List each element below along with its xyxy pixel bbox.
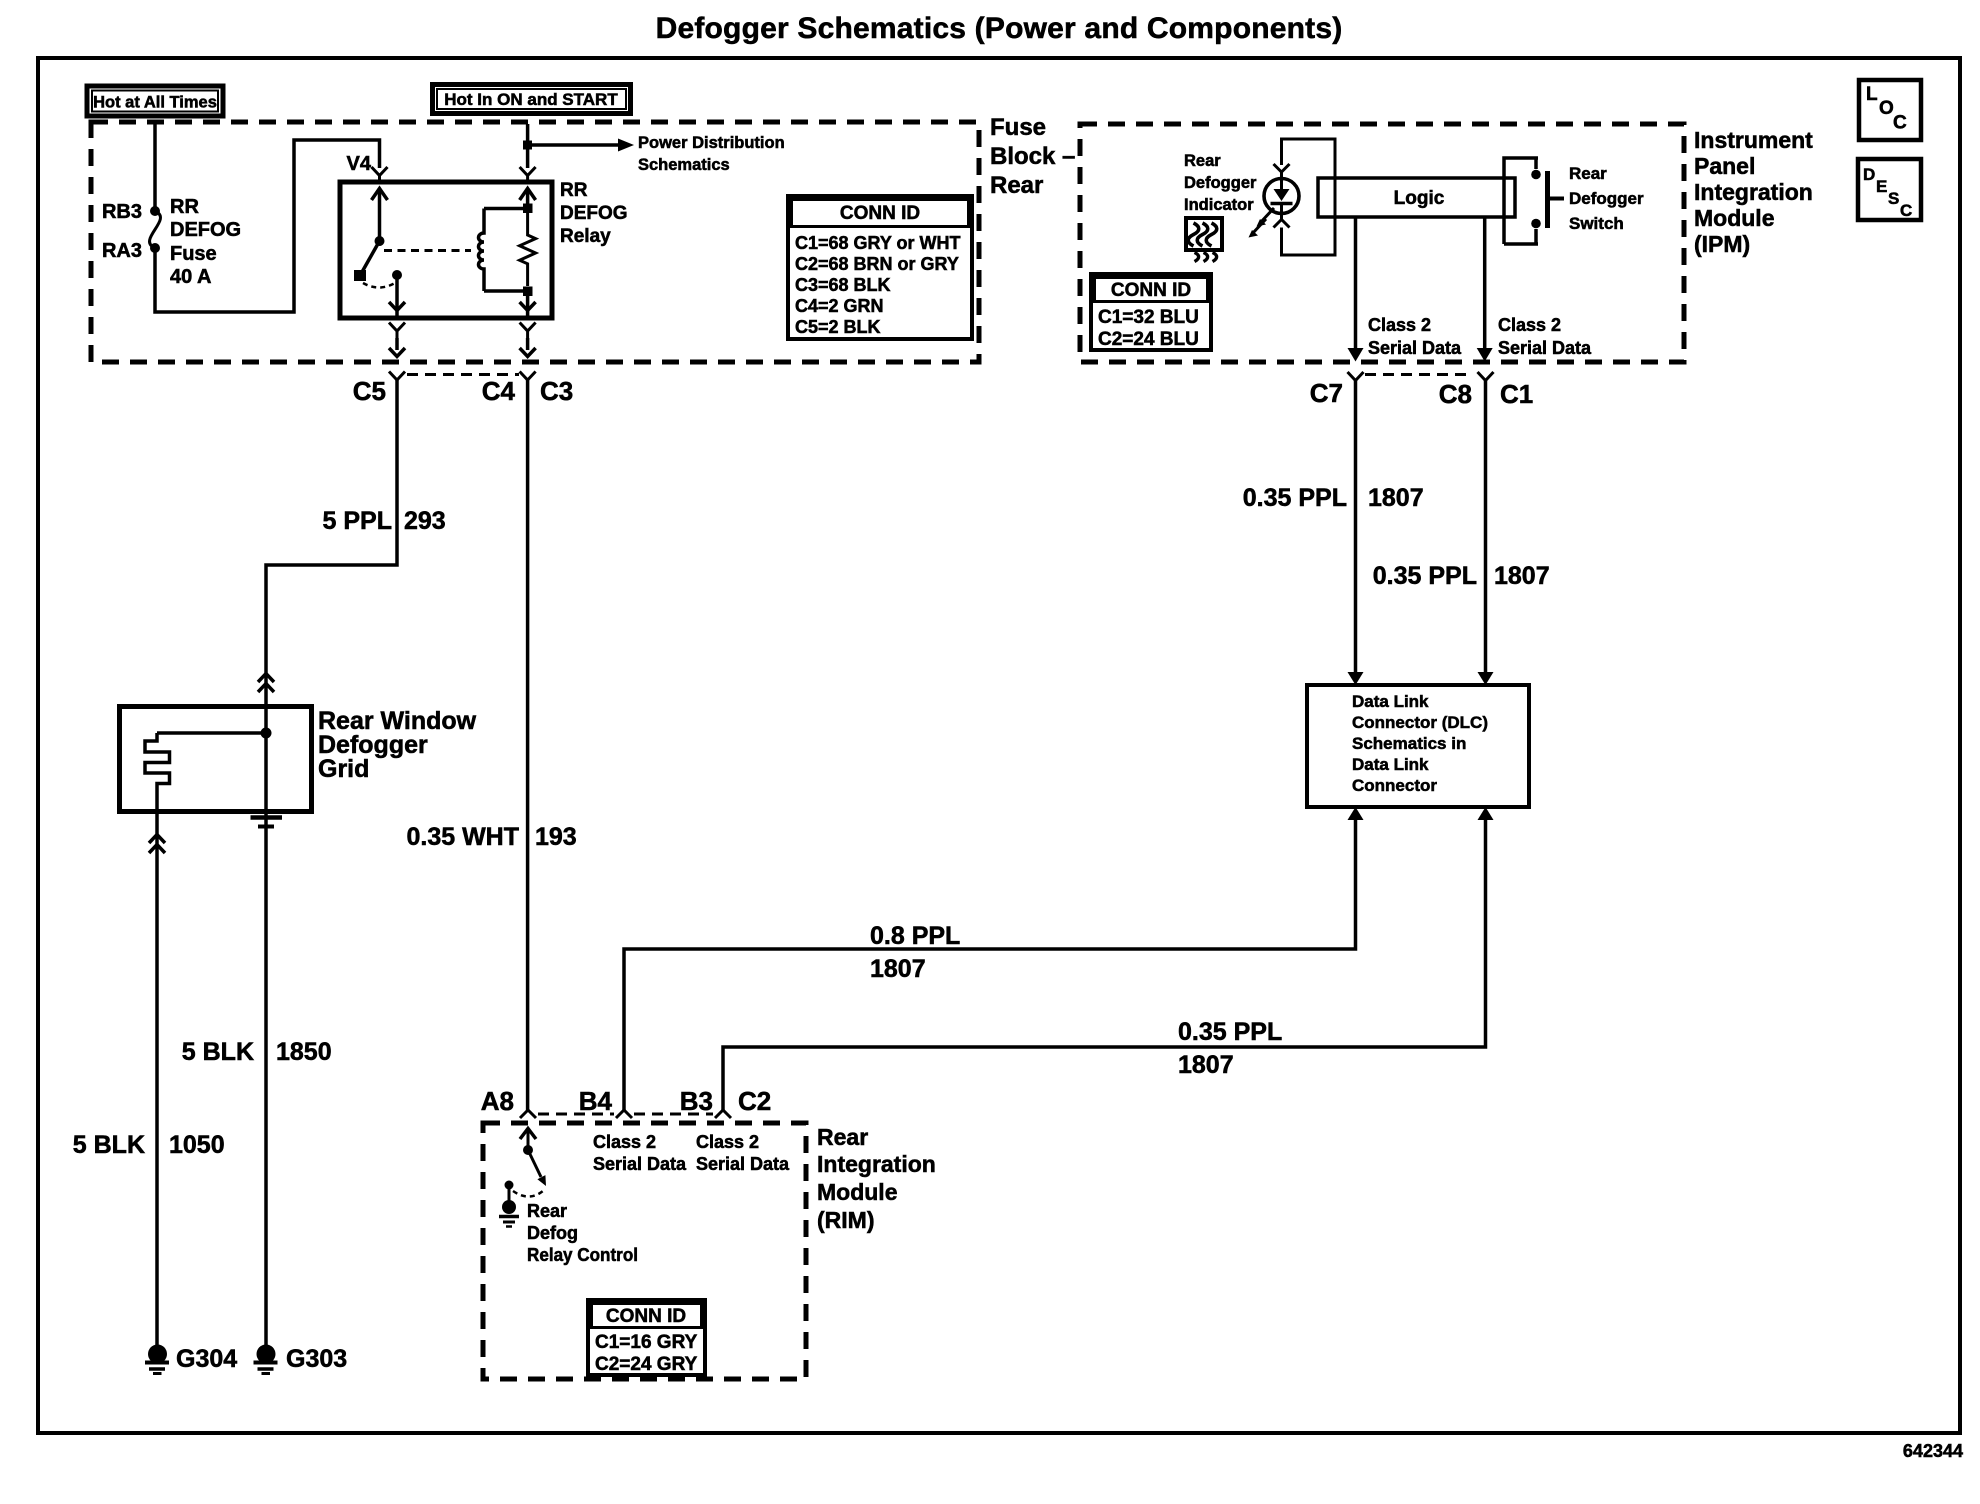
node: coil top junction — [523, 204, 533, 214]
node: grid feed junction — [261, 728, 272, 739]
svg-text:C1=16 GRY: C1=16 GRY — [595, 1332, 698, 1353]
svg-text:Class 2: Class 2 — [696, 1132, 759, 1152]
svg-text:Serial Data: Serial Data — [696, 1154, 790, 1174]
fuse block - rear dashed box — [91, 122, 979, 362]
wire: LED anode loop to logic — [1282, 139, 1336, 255]
connector B3 — [680, 1086, 731, 1118]
svg-text:Hot at All Times: Hot at All Times — [93, 94, 217, 112]
connector: relay coil pin — [520, 167, 536, 182]
svg-text:C8: C8 — [1439, 379, 1472, 409]
wire: fuse RA3 to relay V4 input — [155, 140, 380, 312]
wire 5 BLK 1050: grid element to G304 — [155, 810, 159, 1347]
svg-text:0.35 WHT: 0.35 WHT — [406, 823, 519, 851]
svg-text:(RIM): (RIM) — [817, 1207, 874, 1233]
svg-text:0.35 PPL: 0.35 PPL — [1373, 562, 1477, 590]
LOC icon box — [1859, 80, 1921, 140]
svg-text:Schematics: Schematics — [638, 156, 730, 174]
svg-text:Connector (DLC): Connector (DLC) — [1352, 713, 1488, 732]
svg-text:(IPM): (IPM) — [1694, 231, 1750, 257]
svg-text:B4: B4 — [579, 1086, 613, 1116]
relay switch — [354, 188, 402, 288]
connector B4 — [579, 1086, 632, 1118]
svg-text:0.35 PPL: 0.35 PPL — [1178, 1018, 1282, 1046]
svg-text:DEFOG: DEFOG — [170, 219, 241, 241]
wire: class 2 serial data from logic (C7) — [1348, 217, 1463, 362]
svg-text:Rear: Rear — [1569, 164, 1607, 183]
label: Rear Defog Relay Control — [527, 1201, 638, 1265]
grid element (heater meander) — [145, 733, 170, 812]
relay coil input arrow — [520, 189, 536, 201]
svg-text:L: L — [1866, 84, 1878, 105]
ground G304 — [145, 1345, 237, 1374]
wire 5 BLK 1850: grid to G303 — [264, 733, 268, 1347]
connector C5 — [353, 323, 405, 407]
wire: LED cathode loop to logic — [1282, 217, 1336, 255]
svg-text:Serial Data: Serial Data — [1498, 338, 1592, 358]
svg-text:Fuse: Fuse — [170, 243, 217, 265]
svg-text:C5: C5 — [353, 376, 386, 406]
svg-text:O: O — [1879, 98, 1894, 119]
svg-text:5 BLK: 5 BLK — [73, 1131, 145, 1159]
fuse RR DEFOG 40 A — [102, 196, 241, 288]
svg-text:Defogger: Defogger — [1184, 174, 1257, 192]
relay actuation dashed link — [384, 249, 471, 252]
relay switch input arrow — [372, 189, 388, 201]
label 5 BLK 1850 — [182, 1038, 332, 1066]
ground: grid case ground — [251, 818, 283, 827]
svg-text:CONN ID: CONN ID — [1111, 280, 1191, 301]
svg-text:Integration: Integration — [817, 1151, 936, 1177]
inline connector on 5 BLK 1050 — [149, 835, 165, 854]
svg-text:Rear: Rear — [990, 172, 1043, 199]
svg-text:C4=2 GRN: C4=2 GRN — [795, 296, 884, 316]
svg-text:CONN ID: CONN ID — [606, 1306, 686, 1327]
connector pin below LED — [1274, 214, 1290, 228]
relay resistor — [520, 213, 536, 286]
svg-text:C2: C2 — [738, 1086, 771, 1116]
connector C4 — [482, 323, 536, 407]
wire: relay coil output to box bottom — [520, 296, 536, 317]
svg-text:1807: 1807 — [1368, 484, 1424, 512]
connector C8 — [1439, 372, 1494, 409]
wire 0.35 WHT 193: relay C3 to RIM A8 — [526, 380, 530, 1110]
svg-text:Indicator: Indicator — [1184, 196, 1254, 214]
connector C7 — [1310, 372, 1364, 408]
label: class 2 serial data (B3) — [696, 1132, 790, 1174]
svg-text:Rear: Rear — [817, 1124, 868, 1150]
logic block U1 — [1318, 178, 1515, 217]
DESC icon box — [1858, 159, 1921, 220]
wire 0.35 PPL 1807: C7 to DLC — [1243, 381, 1424, 686]
svg-text:Relay: Relay — [560, 226, 611, 247]
svg-text:E: E — [1876, 177, 1887, 196]
svg-text:CONN ID: CONN ID — [840, 203, 920, 224]
label: Instrument Panel Integration Module (IPM) — [1694, 127, 1813, 257]
connector V4 — [347, 153, 388, 182]
svg-text:Data Link: Data Link — [1352, 692, 1429, 711]
svg-text:1807: 1807 — [1178, 1051, 1234, 1079]
svg-text:C1: C1 — [1500, 379, 1533, 409]
svg-text:Integration: Integration — [1694, 179, 1813, 205]
svg-text:Relay Control: Relay Control — [527, 1245, 638, 1265]
label 5 BLK 1050 — [73, 1131, 225, 1159]
svg-text:1050: 1050 — [169, 1131, 225, 1159]
label: Fuse Block - Rear — [990, 114, 1075, 199]
inline connector dashed link A8-B4-B3 — [538, 1113, 713, 1116]
RIM dashed box — [483, 1123, 806, 1379]
svg-text:Fuse: Fuse — [990, 114, 1046, 141]
wire: class 2 serial data from logic (C8) — [1477, 217, 1592, 362]
svg-text:RA3: RA3 — [102, 240, 142, 262]
svg-text:C4: C4 — [482, 376, 516, 406]
wire: coil top link — [484, 207, 527, 211]
svg-text:Switch: Switch — [1569, 214, 1624, 233]
svg-text:C1=68 GRY or WHT: C1=68 GRY or WHT — [795, 233, 961, 253]
svg-text:G303: G303 — [286, 1345, 347, 1373]
svg-text:C: C — [1900, 201, 1912, 220]
rear window defogger grid — [120, 707, 477, 812]
connector pin above LED — [1274, 164, 1290, 179]
connector id table (RIM) — [588, 1300, 705, 1375]
svg-text:C3=68 BLK: C3=68 BLK — [795, 275, 891, 295]
svg-text:Rear: Rear — [1184, 152, 1221, 170]
label: class 2 serial data (B4) — [593, 1132, 687, 1174]
svg-text:A8: A8 — [481, 1086, 514, 1116]
svg-text:1807: 1807 — [1494, 562, 1550, 590]
ground G303 — [254, 1345, 348, 1374]
node: coil bottom junction — [523, 287, 533, 297]
label: Rear Integration Module (RIM) — [817, 1124, 936, 1233]
svg-text:Schematics in: Schematics in — [1352, 734, 1466, 753]
svg-text:Module: Module — [1694, 205, 1775, 231]
wire: ignition feed from Hot In ON and START — [526, 124, 530, 141]
svg-text:C2=24 BLU: C2=24 BLU — [1098, 329, 1199, 350]
svg-text:Power Distribution: Power Distribution — [638, 134, 785, 152]
label box: Hot at All Times — [87, 86, 223, 116]
wire 0.35 PPL 1807: C8 to DLC — [1373, 381, 1550, 686]
inline connector dashed link C7-C8 — [1365, 373, 1473, 376]
svg-text:C7: C7 — [1310, 378, 1343, 408]
wire: junction down to relay coil input — [526, 149, 530, 168]
svg-text:1850: 1850 — [276, 1038, 332, 1066]
wire arrow to Power Distribution Schematics — [532, 134, 785, 174]
svg-text:642344: 642344 — [1903, 1441, 1963, 1461]
label: Rear Defogger Indicator — [1184, 152, 1257, 214]
wire: battery feed into fuse RB3 — [153, 124, 157, 207]
connector id table (IPM) — [1091, 274, 1211, 350]
label 5 PPL 293 — [323, 507, 446, 535]
label box: Hot In ON and START — [433, 85, 631, 114]
label 0.35 WHT 193 — [406, 823, 576, 851]
svg-text:Logic: Logic — [1394, 188, 1445, 209]
wire: coil bottom link — [484, 289, 527, 293]
svg-text:C: C — [1893, 113, 1907, 134]
svg-text:C3: C3 — [540, 376, 573, 406]
svg-text:0.8 PPL: 0.8 PPL — [870, 922, 960, 950]
wire 0.8 PPL 1807: DLC to RIM B4 — [624, 807, 1364, 1110]
svg-text:Data Link: Data Link — [1352, 755, 1429, 774]
svg-text:293: 293 — [404, 507, 446, 535]
inline connector on grid feed wire — [258, 674, 274, 693]
svg-text:D: D — [1863, 165, 1875, 184]
svg-text:C2=68 BRN or GRY: C2=68 BRN or GRY — [795, 254, 959, 274]
svg-text:Rear: Rear — [527, 1201, 567, 1221]
rear defog relay control driver — [499, 1129, 546, 1227]
label: Rear Defogger Switch — [1569, 164, 1644, 233]
relay RR DEFOG Relay — [340, 180, 628, 318]
rear defogger switch — [1504, 158, 1564, 244]
svg-text:Class 2: Class 2 — [1498, 315, 1561, 335]
wire: grid internal bus — [157, 731, 262, 735]
svg-text:Panel: Panel — [1694, 153, 1755, 179]
svg-text:Class 2: Class 2 — [593, 1132, 656, 1152]
svg-text:Hot In ON and START: Hot In ON and START — [444, 90, 618, 109]
IPM dashed box — [1080, 124, 1684, 362]
wire: relay switch output to box bottom — [389, 275, 405, 317]
DLC reference box — [1307, 685, 1529, 807]
wire 5 PPL 293: relay C5 to defogger grid — [266, 380, 397, 734]
svg-text:B3: B3 — [680, 1086, 713, 1116]
wire 0.35 PPL 1807: DLC to RIM C2 — [723, 807, 1494, 1110]
svg-text:Defog: Defog — [527, 1223, 578, 1243]
svg-text:5 PPL: 5 PPL — [323, 507, 392, 535]
connector A8 — [481, 1086, 536, 1118]
wire: relay coil feed — [526, 188, 530, 204]
svg-text:DEFOG: DEFOG — [560, 203, 628, 224]
svg-text:1807: 1807 — [870, 955, 926, 983]
svg-text:RR: RR — [560, 180, 588, 201]
svg-text:193: 193 — [535, 823, 577, 851]
svg-text:Defogger: Defogger — [1569, 189, 1644, 208]
svg-text:Serial Data: Serial Data — [593, 1154, 687, 1174]
svg-text:Block –: Block – — [990, 143, 1075, 170]
connector id table (fuse block) — [788, 196, 972, 339]
svg-text:C2=24 GRY: C2=24 GRY — [595, 1354, 698, 1375]
svg-text:Defogger Schematics (Power and: Defogger Schematics (Power and Component… — [656, 12, 1343, 45]
svg-text:Class 2: Class 2 — [1368, 315, 1431, 335]
svg-text:0.35 PPL: 0.35 PPL — [1243, 484, 1347, 512]
svg-text:5 BLK: 5 BLK — [182, 1038, 254, 1066]
svg-text:C5=2 BLK: C5=2 BLK — [795, 317, 881, 337]
inline connector dashed link C5-C4 — [407, 373, 519, 376]
svg-text:Grid: Grid — [318, 755, 369, 783]
svg-text:Module: Module — [817, 1179, 898, 1205]
svg-text:RR: RR — [170, 196, 199, 218]
svg-text:40 A: 40 A — [170, 266, 212, 288]
svg-text:Serial Data: Serial Data — [1368, 338, 1462, 358]
svg-text:C1=32 BLU: C1=32 BLU — [1098, 307, 1199, 328]
svg-text:Instrument: Instrument — [1694, 127, 1813, 153]
node: junction to power distribution — [523, 141, 532, 150]
svg-text:S: S — [1888, 189, 1899, 208]
defog indicator icon — [1186, 218, 1222, 262]
svg-text:G304: G304 — [176, 1345, 237, 1373]
svg-text:Connector: Connector — [1352, 776, 1437, 795]
relay coil winding — [479, 209, 485, 292]
svg-text:V4: V4 — [347, 153, 372, 175]
rear defogger indicator LED — [1249, 179, 1300, 238]
svg-text:RB3: RB3 — [102, 201, 142, 223]
